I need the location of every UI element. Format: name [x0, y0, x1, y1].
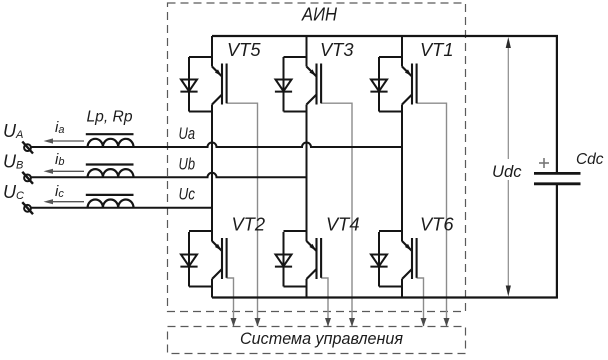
transistor VT5 [212, 64, 227, 105]
wire VT5 collector drop [211, 36, 213, 67]
inductor La [88, 139, 134, 147]
wire VT2 emitter drop [211, 279, 213, 298]
svg-text:VT3: VT3 [320, 40, 354, 60]
diode of VT1 [370, 57, 387, 112]
svg-text:Ub: Ub [179, 155, 196, 173]
svg-text:АИН: АИН [301, 4, 337, 25]
terminal UB [22, 172, 33, 184]
wire VT1 diode top [379, 56, 402, 58]
wire VT3 diode top [284, 56, 307, 58]
wire VT3 collector drop [306, 36, 308, 67]
wire VT1 diode bottom [379, 111, 402, 113]
gate line VT3 [321, 103, 352, 326]
plus sign of Cdc [539, 158, 549, 168]
inductor Lb core bar [86, 163, 134, 165]
diode of VT5 [180, 57, 197, 112]
transistor VT6 [402, 238, 417, 279]
dashed box control system [168, 327, 466, 354]
diode of VT3 [275, 57, 292, 112]
svg-text:VT6: VT6 [420, 215, 454, 235]
transistor VT3 [307, 64, 322, 105]
svg-text:VT5: VT5 [227, 40, 261, 60]
leg 3 wire (VT1 emitter to VT6 collector) [401, 105, 403, 242]
current arrow ia [47, 140, 84, 142]
wire VT4 diode bottom [284, 286, 307, 288]
gate line VT1 [417, 103, 447, 326]
inductor Lc core bar [86, 194, 134, 196]
svg-text:Udc: Udc [492, 162, 522, 181]
svg-text:Uc: Uc [179, 186, 196, 204]
svg-text:VT4: VT4 [326, 215, 360, 235]
wire VT4 emitter drop [306, 279, 308, 298]
current arrow ic [47, 201, 84, 203]
wire VT6 emitter drop [401, 279, 403, 298]
transistor VT1 [402, 64, 417, 105]
wire bottom DC bus [212, 296, 558, 298]
dimension line Udc [507, 40, 509, 159]
wire VT6 diode top [379, 230, 402, 232]
svg-text:VT2: VT2 [232, 215, 266, 235]
dashed box AIN (inverter) [168, 3, 466, 312]
wire VT3 diode bottom [284, 111, 307, 113]
svg-text:VT1: VT1 [420, 40, 454, 60]
current arrow ib [47, 170, 84, 172]
phase line b [31, 173, 307, 178]
svg-text:Lp, Rp: Lp, Rp [87, 109, 133, 126]
terminal UC [22, 202, 33, 214]
inductor Lb [88, 169, 134, 177]
capacitor Cdc [534, 173, 581, 183]
leg 1 wire (VT5 emitter to VT2 collector) [211, 105, 213, 242]
diode of VT6 [370, 232, 387, 287]
gate line VT5 [227, 103, 258, 326]
inductor Lc [88, 200, 134, 208]
svg-text:Cdc: Cdc [576, 151, 604, 168]
svg-text:Система управления: Система управления [240, 329, 403, 348]
wire VT5 diode bottom [189, 111, 212, 113]
wire VT5 diode top [189, 56, 212, 58]
wire VT2 diode bottom [189, 286, 212, 288]
diode of VT4 [275, 232, 292, 287]
svg-text:Ua: Ua [179, 125, 196, 143]
leg 2 wire (VT3 emitter to VT4 collector) [306, 105, 308, 242]
phase line a [31, 143, 402, 148]
wire VT4 diode top [284, 230, 307, 232]
transistor VT2 [212, 238, 227, 279]
terminal UA [22, 142, 33, 154]
gate line VT2 [227, 278, 234, 326]
wire VT2 diode top [189, 230, 212, 232]
wire right DC link upper [556, 36, 558, 173]
gate line VT4 [321, 278, 328, 326]
wire top DC bus [212, 35, 558, 37]
diode of VT2 [180, 232, 197, 287]
phase line c [31, 207, 212, 209]
inductor La core bar [86, 133, 134, 135]
transistor VT4 [307, 238, 322, 279]
wire right DC link lower [556, 185, 558, 298]
wire VT6 diode bottom [379, 286, 402, 288]
wire VT1 collector drop [401, 36, 403, 67]
gate line VT6 [417, 278, 424, 326]
